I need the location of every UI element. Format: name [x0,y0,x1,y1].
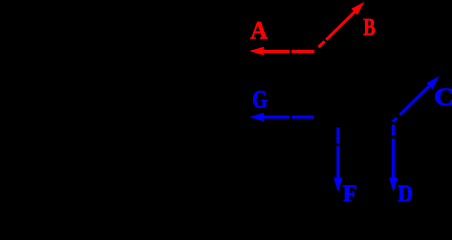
arrow B shaft segment 2 [326,12,355,40]
arrow C shaft segment 2 [400,85,430,115]
arrow C head [426,76,439,89]
arrow B shaft segment 1 [319,41,325,47]
svg-text:C: C [434,84,452,111]
svg-text:D: D [398,181,413,202]
arrow G head [249,113,263,122]
arrow D shaft segment 2 [392,139,395,179]
arrow D shaft segment 1 [392,125,395,136]
arrow A shaft segment 1 [263,50,290,53]
arrow G shaft segment 1 [263,116,289,119]
arrow D head [389,178,398,192]
svg-text:G: G [252,87,268,114]
arrow A shaft segment 2 [292,50,315,53]
arrow F shaft segment 2 [337,146,340,179]
svg-text:B: B [363,15,375,41]
arrow C shaft segment 1 [393,118,397,122]
arrow B head [351,2,364,15]
arrow F head [334,178,343,192]
arrow F shaft segment 1 [337,128,340,144]
svg-text:F: F [343,181,358,201]
svg-text:A: A [250,18,267,45]
arrow A head [249,47,263,56]
arrow G shaft segment 2 [292,116,314,119]
